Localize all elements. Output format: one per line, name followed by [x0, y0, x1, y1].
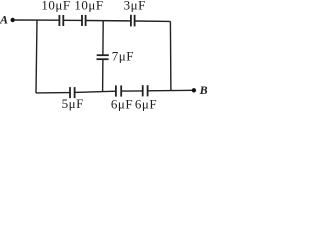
wire middle column lower — [102, 59, 104, 92]
capacitor 7uF — [97, 55, 109, 59]
capacitor 10uF second — [82, 15, 86, 26]
wire left column — [36, 20, 37, 93]
capacitor 6uF second — [143, 85, 148, 96]
svg-text:5μF: 5μF — [62, 96, 84, 111]
capacitor 5uF — [70, 87, 75, 98]
wire middle column upper — [102, 21, 104, 55]
wire C3 to top-right corner — [135, 20, 171, 22]
wire C6b to B — [148, 89, 194, 92]
svg-text:6μF: 6μF — [135, 96, 157, 111]
node A — [0, 12, 15, 26]
wire C6a to C6b — [121, 90, 143, 92]
svg-text:3μF: 3μF — [124, 0, 146, 12]
wire top rail A to C1 — [13, 19, 60, 21]
svg-text:10μF: 10μF — [74, 0, 103, 12]
svg-text:6μF: 6μF — [111, 96, 133, 111]
capacitor 6uF first — [116, 85, 121, 96]
wire C1 to C2 — [63, 19, 82, 21]
wire right column — [169, 21, 172, 91]
svg-text:7μF: 7μF — [112, 48, 134, 63]
node B — [192, 83, 208, 97]
svg-text:A: A — [0, 12, 8, 26]
wire C2 to C3 — [86, 20, 131, 22]
capacitor 3uF — [131, 15, 135, 27]
capacitor 10uF first — [59, 15, 63, 26]
svg-text:10μF: 10μF — [41, 0, 70, 12]
wire bottom rail left corner to C5 — [36, 92, 70, 94]
wire C5 to C6a — [75, 91, 116, 92]
svg-text:B: B — [199, 83, 208, 97]
